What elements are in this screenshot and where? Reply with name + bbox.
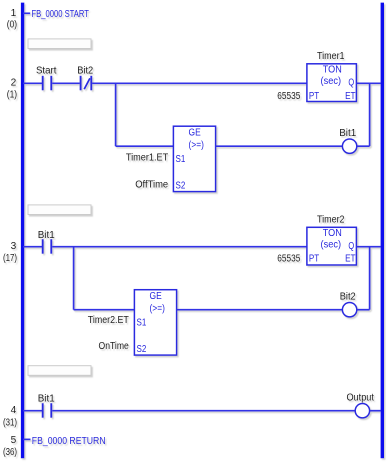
svg-text:Timer1.ET: Timer1.ET <box>126 153 168 164</box>
timer function block U2 TON (Timer2) <box>307 227 357 265</box>
svg-text:(31): (31) <box>3 418 17 429</box>
wire GE2 output to coil Bit2 <box>177 309 343 311</box>
svg-text:4: 4 <box>11 405 17 416</box>
svg-text:Timer2.ET: Timer2.ET <box>88 315 129 326</box>
rung number 5 (step 36) <box>3 435 17 458</box>
svg-text:Bit1: Bit1 <box>38 393 55 404</box>
comment box network 2 <box>28 205 91 215</box>
label Timer1.ET at GE1 S1 <box>126 153 168 164</box>
coil Bit1 <box>342 139 356 153</box>
rung number 1 (step 0) <box>7 8 17 31</box>
svg-text:Bit1: Bit1 <box>339 128 356 139</box>
svg-text:S2: S2 <box>176 180 186 191</box>
label Output <box>346 392 374 403</box>
label Timer2 <box>317 215 345 226</box>
svg-text:Start: Start <box>36 65 57 76</box>
branch junction down to GE2 <box>73 247 75 310</box>
svg-text:2: 2 <box>11 77 17 88</box>
svg-text:PT: PT <box>309 254 319 265</box>
label Timer2.ET at GE2 S1 <box>88 315 129 326</box>
label Bit1 (contact network 3) <box>38 230 55 241</box>
label Bit1 (contact network 4) <box>38 393 55 404</box>
coil Output <box>355 404 369 418</box>
svg-text:(36): (36) <box>3 447 17 458</box>
svg-text:Bit2: Bit2 <box>77 65 93 76</box>
wire rail to contact Bit1 network 4 <box>23 410 42 412</box>
label Start <box>36 65 57 76</box>
wire coil Bit2 to junction <box>357 309 370 311</box>
svg-text:S2: S2 <box>137 344 147 355</box>
contact Bit1 (NO) network 3 <box>43 239 52 254</box>
comment box network 3 <box>28 366 91 376</box>
svg-text:(>=): (>=) <box>189 140 204 151</box>
svg-text:FB_0000 START: FB_0000 START <box>32 9 89 20</box>
label Bit1 (coil) <box>339 128 356 139</box>
wire tick for FB_0000 RETURN <box>23 438 31 440</box>
wire Bit1 to coil Output <box>52 410 355 412</box>
label Timer1 <box>317 51 345 62</box>
svg-text:TON: TON <box>323 228 342 239</box>
wire Timer2 Q to right rail <box>356 246 381 248</box>
rung number 3 (step 17) <box>3 241 17 264</box>
svg-text:Output: Output <box>346 392 374 403</box>
svg-text:Q: Q <box>348 77 354 88</box>
wire coil Output to right rail <box>370 410 381 412</box>
svg-text:OnTime: OnTime <box>99 341 130 352</box>
left power rail <box>21 3 24 459</box>
svg-text:Bit2: Bit2 <box>340 291 356 302</box>
label Bit2 (coil) <box>340 291 356 302</box>
value 65535 at PT of Timer1 <box>277 91 300 102</box>
svg-text:Timer1: Timer1 <box>317 51 345 62</box>
value 65535 at PT of Timer2 <box>277 254 300 265</box>
wire Timer1 Q to right rail <box>356 82 381 84</box>
svg-text:GE: GE <box>150 291 162 302</box>
svg-text:Q: Q <box>348 241 354 252</box>
svg-text:(1): (1) <box>7 90 17 101</box>
svg-text:1: 1 <box>11 8 17 19</box>
svg-text:3: 3 <box>11 241 17 252</box>
svg-text:S1: S1 <box>176 154 186 165</box>
svg-text:TON: TON <box>323 65 342 76</box>
label FB_0000 RETURN <box>32 436 106 447</box>
label OnTime at GE2 S2 <box>99 341 130 352</box>
svg-text:(17): (17) <box>3 253 17 264</box>
svg-text:(0): (0) <box>7 20 17 31</box>
svg-text:65535: 65535 <box>277 254 300 265</box>
svg-text:(sec): (sec) <box>321 76 342 87</box>
branch junction down to GE1 <box>115 83 117 146</box>
contact Bit1 (NO) network 4 <box>43 403 52 418</box>
right power rail <box>381 3 384 459</box>
svg-text:65535: 65535 <box>277 91 300 102</box>
svg-text:S1: S1 <box>137 318 147 329</box>
svg-text:5: 5 <box>11 435 17 446</box>
label FB_0000 START <box>32 9 89 20</box>
rung number 2 (step 1) <box>7 77 17 100</box>
wire branch to GE1 input <box>116 145 174 147</box>
vertical wire junction to Q line network 3 <box>369 247 371 310</box>
label OffTime at GE1 S2 <box>135 180 168 191</box>
svg-text:ET: ET <box>345 254 355 265</box>
timer function block U1 TON (Timer1) <box>307 64 357 102</box>
svg-text:Bit1: Bit1 <box>38 230 55 241</box>
svg-text:(sec): (sec) <box>321 239 342 250</box>
comparison block GE2 (>=) <box>134 290 176 355</box>
wire coil Bit1 to junction <box>357 145 370 147</box>
wire tick for FB_0000 START <box>23 12 30 14</box>
wire Bit2 to TON Timer1 <box>92 82 307 84</box>
wire rail to contact Start <box>23 82 42 84</box>
svg-text:PT: PT <box>309 91 319 102</box>
svg-text:Timer2: Timer2 <box>317 215 345 226</box>
wire branch to GE2 input <box>74 309 135 311</box>
contact Bit2 (NC) <box>81 76 92 91</box>
comment box network 1 <box>28 39 91 49</box>
comparison block GE1 (>=) <box>173 126 215 191</box>
svg-text:OffTime: OffTime <box>135 180 168 191</box>
rung number 4 (step 31) <box>3 405 17 429</box>
wire rail to contact Bit1 <box>23 246 42 248</box>
wire Bit1 to TON Timer2 <box>52 246 307 248</box>
vertical wire junction to Q line network 2 <box>369 83 371 146</box>
svg-text:(>=): (>=) <box>150 303 165 314</box>
contact Start (NO) <box>43 76 52 91</box>
svg-text:FB_0000 RETURN: FB_0000 RETURN <box>32 436 106 447</box>
wire GE1 output to coil Bit1 <box>216 145 343 147</box>
label Bit2 <box>77 65 93 76</box>
svg-text:ET: ET <box>345 91 355 102</box>
svg-text:GE: GE <box>189 127 201 138</box>
coil Bit2 <box>342 303 356 317</box>
wire Start to Bit2 <box>52 82 80 84</box>
